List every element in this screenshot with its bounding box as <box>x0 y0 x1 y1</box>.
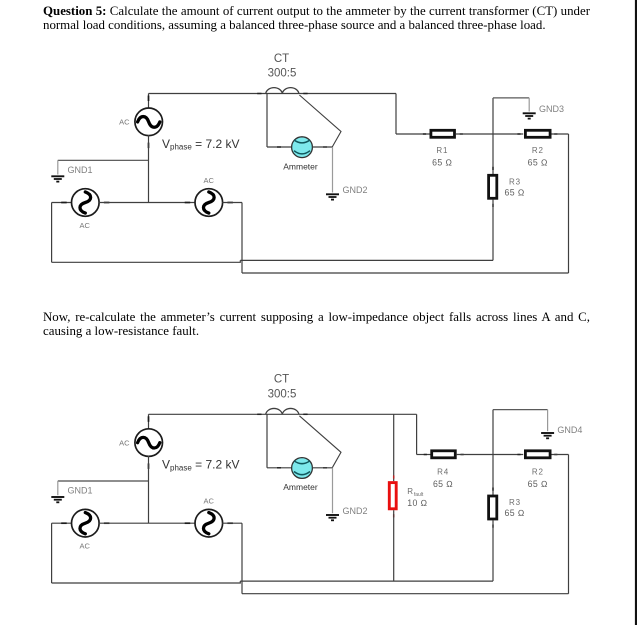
svg-text:10 Ω: 10 Ω <box>407 498 427 508</box>
paragraph: re-calculate <box>43 310 590 339</box>
wire: R3 bottom lead <box>492 200 494 261</box>
wire: ammeter right lead <box>312 146 332 148</box>
wire: fault branch bottom lead <box>393 510 395 581</box>
svg-text:AC: AC <box>119 438 130 447</box>
pin dashes R2 (circuit 2) <box>517 454 557 456</box>
wire: GND1 branch (circuit 2) <box>58 480 149 482</box>
pin dashes ammeter A1 <box>277 146 327 148</box>
wire: GND2 stub (circuit 2) <box>332 468 334 513</box>
wire: to R4 left <box>417 454 431 456</box>
pin dashes R3 (circuit 2) <box>492 488 494 528</box>
svg-text:Ammeter: Ammeter <box>283 482 318 492</box>
wire: neutral row middle segment (circuit 2) <box>99 522 195 524</box>
ground GND4 <box>541 433 554 438</box>
svg-text:300:5: 300:5 <box>268 68 297 80</box>
wire: bottom rail to R3 (circuit 2) <box>240 580 493 582</box>
svg-text:CT: CT <box>274 53 289 65</box>
wire: bottom rail to R3 <box>240 259 493 261</box>
resistor R1 <box>431 130 455 137</box>
wire: corner drop x=416.6 to load row (circuit 2) <box>416 414 418 454</box>
svg-text:AC: AC <box>80 221 91 230</box>
wire: top rail phase A (source V1 to CT to corner) <box>149 93 397 95</box>
wire: V3 right lead to corner <box>222 202 242 204</box>
svg-text:R4: R4 <box>437 468 449 477</box>
wire: bottom rail to R2 side (circuit 2) <box>242 593 569 595</box>
svg-text:Rfault: Rfault <box>407 487 424 498</box>
svg-text:R2: R2 <box>532 468 544 477</box>
wire: GND1 stub <box>57 160 59 174</box>
svg-text:AC: AC <box>204 497 215 506</box>
wire: ammeter left lead (circuit 2) <box>267 467 292 469</box>
svg-text:GND2: GND2 <box>343 506 368 516</box>
pin dashes CT <box>257 93 307 95</box>
wire: bottom left rail <box>52 260 241 262</box>
wire: CT secondary left drop (circuit 2) <box>266 414 268 468</box>
wire: ammeter right lead (circuit 2) <box>312 467 332 469</box>
svg-text:300:5: 300:5 <box>268 388 297 400</box>
wire: R1 to R2 <box>456 133 523 135</box>
wire: top rail phase A (source to CT to corner) <box>149 413 417 415</box>
svg-text:GND1: GND1 <box>68 165 93 175</box>
svg-text:GND3: GND3 <box>539 104 564 114</box>
AC source V6 (middle, phase C) <box>185 509 233 537</box>
wire: ammeter left lead <box>267 146 292 148</box>
svg-text:R3: R3 <box>509 177 521 186</box>
wire: fault branch top lead <box>393 414 395 481</box>
AC source V1 (top, phase A) <box>135 96 163 149</box>
ammeter A2 <box>292 458 313 479</box>
wire: V1 top lead <box>148 94 150 109</box>
pin dashes R2 <box>517 133 557 135</box>
svg-text:Vphase = 7.2 kV: Vphase = 7.2 kV <box>162 137 240 152</box>
AC source V5 (left, phase B) <box>61 509 109 537</box>
wire: bottom left rail (circuit 2) <box>52 581 241 583</box>
wire: CT secondary left drop <box>266 94 268 148</box>
svg-text:65 Ω: 65 Ω <box>528 157 548 167</box>
pin dashes R1 <box>423 133 463 135</box>
ground GND3 <box>523 113 536 118</box>
ground GND1 (circuit 2) <box>51 497 64 502</box>
wire: GND4 jog <box>493 409 548 411</box>
wire: V4 top lead <box>148 414 150 429</box>
page right border line <box>635 0 637 625</box>
resistor R3 (circuit 2) <box>489 496 497 519</box>
ground GND2 <box>326 194 339 199</box>
svg-text:AC: AC <box>204 176 215 185</box>
AC source V3 (middle, phase C) <box>185 189 233 217</box>
ground GND2 (circuit 2) <box>326 515 339 520</box>
wire: left loop vertical (circuit 2) <box>51 523 53 583</box>
resistor Rfault <box>389 483 396 509</box>
wire: right vertical down (circuit 2) <box>568 455 570 594</box>
wire: R3 branch vertical upper <box>492 98 494 175</box>
resistor R2 (circuit 2) <box>525 451 550 458</box>
AC source V2 (left, phase B) <box>61 189 109 217</box>
svg-text:R1: R1 <box>436 146 448 155</box>
svg-text:65 Ω: 65 Ω <box>432 157 452 167</box>
svg-text:Vphase = 7.2 kV: Vphase = 7.2 kV <box>162 458 240 473</box>
svg-text:R3: R3 <box>509 498 521 507</box>
resistor R4 <box>432 451 456 458</box>
pin dashes CT (circuit 2) <box>257 413 307 415</box>
svg-text:AC: AC <box>80 542 91 551</box>
AC source V4 (top, phase A) <box>135 416 163 469</box>
svg-text:65 Ω: 65 Ω <box>505 188 525 198</box>
svg-text:65 Ω: 65 Ω <box>433 479 453 489</box>
ground GND1 <box>51 176 64 181</box>
wire: R2 right to corner (circuit 2) <box>552 454 569 456</box>
wire: left loop vertical <box>51 203 53 263</box>
wire: neutral row left segment <box>52 202 72 204</box>
wire: corner drop x=396 to load row <box>395 94 397 135</box>
ammeter A1 <box>292 137 313 158</box>
wire: R3 bottom lead (circuit 2) <box>492 520 494 581</box>
wire: bottom rail to R2 side <box>242 272 569 274</box>
pin dashes R4 <box>424 454 464 456</box>
wire: GND3 jog <box>493 97 529 99</box>
wire: vertical drop x=242 <box>241 203 243 274</box>
wire: GND1 stub (circuit 2) <box>57 481 59 495</box>
resistor R3 <box>489 175 497 198</box>
svg-text:GND2: GND2 <box>343 185 368 195</box>
svg-text:R2: R2 <box>532 146 544 155</box>
svg-text:CT: CT <box>274 374 289 386</box>
wire: R2 right to corner <box>552 133 569 135</box>
pin dashes Rfault <box>393 475 395 517</box>
paragraph: question 5 <box>43 4 590 33</box>
wire: V1 bottom lead down to neutral row <box>148 135 150 203</box>
wire: V6 right lead to corner (circuit 2) <box>222 522 242 524</box>
CT primary coil humps <box>266 88 299 94</box>
wire: neutral row middle segment <box>99 202 195 204</box>
wire: CT secondary diagonal (circuit 2) <box>299 416 341 468</box>
resistor R2 <box>525 130 550 137</box>
wire: GND3 stub <box>528 98 530 112</box>
svg-text:AC: AC <box>119 118 130 127</box>
svg-text:GND4: GND4 <box>557 425 582 435</box>
svg-text:65 Ω: 65 Ω <box>505 508 525 518</box>
wire: R4 to R2 (circuit 2) <box>457 454 524 456</box>
wire: GND4 stub <box>547 410 549 432</box>
CT primary coil humps (circuit 2) <box>266 408 299 414</box>
wire: neutral row left segment (circuit 2) <box>52 522 72 524</box>
svg-text:65 Ω: 65 Ω <box>528 479 548 489</box>
wire: vertical drop x=242 (circuit 2) <box>241 523 243 594</box>
wire: V4 bottom lead <box>148 456 150 523</box>
wire: GND2 stub <box>332 147 334 193</box>
svg-text:Ammeter: Ammeter <box>283 162 318 172</box>
pin dashes R3 <box>492 167 494 207</box>
wire: right vertical down <box>568 134 570 273</box>
wire: GND1 branch <box>58 159 149 161</box>
pin dashes ammeter A2 <box>277 467 327 469</box>
wire: CT secondary diagonal <box>299 95 341 147</box>
wire: R3 branch vertical upper (circuit 2) <box>492 410 494 496</box>
svg-text:GND1: GND1 <box>68 486 93 496</box>
wire: to R1 left <box>396 133 430 135</box>
